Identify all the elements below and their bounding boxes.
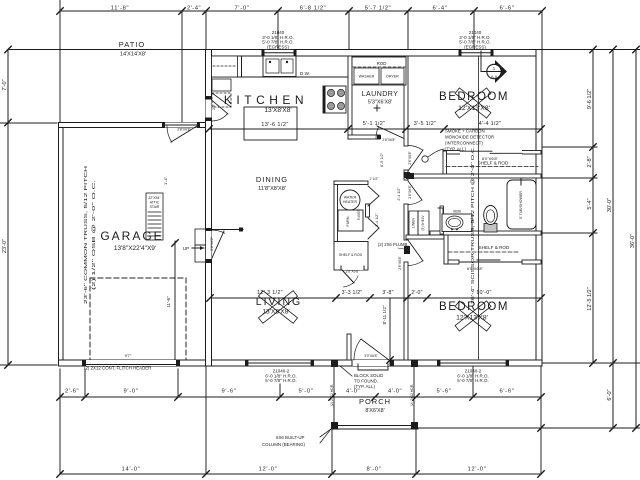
svg-text:2'-6": 2'-6" bbox=[65, 389, 79, 395]
svg-text:9'7": 9'7" bbox=[125, 353, 132, 358]
svg-text:FURN.: FURN. bbox=[346, 216, 350, 227]
svg-text:5'-4": 5'-4" bbox=[587, 198, 593, 209]
svg-text:6'-6": 6'-6" bbox=[499, 6, 514, 12]
garage slab dashed outline bbox=[90, 277, 186, 279]
svg-text:BLOCK SOLID: BLOCK SOLID bbox=[354, 373, 383, 378]
witness lines right bbox=[542, 49, 640, 51]
svg-text:DRYER: DRYER bbox=[386, 75, 399, 79]
svg-text:6'-8 1/2": 6'-8 1/2" bbox=[300, 6, 327, 12]
laundry door bbox=[377, 126, 404, 139]
svg-text:PATIO: PATIO bbox=[119, 40, 145, 49]
svg-text:8'-0": 8'-0" bbox=[366, 467, 381, 473]
svg-text:6'0"X6'8": 6'0"X6'8" bbox=[467, 266, 484, 271]
svg-text:11'-8": 11'-8" bbox=[111, 6, 130, 12]
dim line bottom row2 overall bbox=[60, 473, 541, 475]
bath door bbox=[408, 181, 422, 200]
garage door opening bbox=[86, 360, 176, 366]
svg-text:MONOXIDE DETECTOR: MONOXIDE DETECTOR bbox=[445, 135, 494, 140]
svg-text:8'X6'X8': 8'X6'X8' bbox=[365, 408, 384, 414]
laundry washer dryer cabinet bbox=[352, 57, 406, 85]
wall hall west segment3 bbox=[404, 204, 408, 240]
svg-text:6'-5 1/2": 6'-5 1/2" bbox=[380, 152, 384, 167]
svg-text:12'X13'X8': 12'X13'X8' bbox=[456, 315, 488, 322]
svg-text:COLUMN (BEARING): COLUMN (BEARING) bbox=[262, 442, 305, 447]
svg-text:13'X8'X8': 13'X8'X8' bbox=[264, 107, 291, 114]
svg-text:6'-4": 6'-4" bbox=[432, 6, 447, 12]
svg-text:2'4"X6'8": 2'4"X6'8" bbox=[408, 184, 412, 198]
svg-text:PORCH: PORCH bbox=[359, 397, 391, 406]
svg-text:KITCHEN: KITCHEN bbox=[224, 93, 308, 107]
svg-text:(EGRESS): (EGRESS) bbox=[267, 44, 289, 49]
witness lines top bbox=[59, 0, 61, 123]
svg-text:(2) 2X12 CONT. FLITCH HEADER: (2) 2X12 CONT. FLITCH HEADER bbox=[84, 366, 151, 371]
svg-text:13'8"X22'4"X9': 13'8"X22'4"X9' bbox=[114, 245, 156, 252]
svg-text:SHELF & ROD: SHELF & ROD bbox=[478, 161, 509, 166]
svg-text:STAIR: STAIR bbox=[150, 205, 160, 209]
kitchen stove bbox=[323, 86, 346, 113]
svg-text:6'-6": 6'-6" bbox=[499, 389, 514, 395]
dim line top bbox=[60, 10, 542, 12]
bathtub bbox=[507, 180, 536, 229]
garage interior dim line bbox=[174, 241, 176, 359]
svg-text:10'-0": 10'-0" bbox=[476, 290, 492, 296]
svg-text:1'-4": 1'-4" bbox=[163, 176, 168, 185]
wall hall west segment4 bedroom2 west bbox=[404, 262, 408, 360]
wall laundry south bbox=[348, 135, 380, 139]
svg-text:2'8"X6'8": 2'8"X6'8" bbox=[177, 128, 191, 132]
svg-text:23'-6" COMMON TRUSS, 5/12 PITC: 23'-6" COMMON TRUSS, 5/12 PITCH bbox=[83, 166, 88, 304]
interior dim line living-bed2 bbox=[210, 297, 541, 299]
svg-text:2'8": 2'8" bbox=[212, 103, 216, 109]
svg-text:12'-0": 12'-0" bbox=[259, 467, 278, 473]
svg-text:8'-11 1/2": 8'-11 1/2" bbox=[382, 305, 387, 324]
truss note right bbox=[478, 56, 480, 359]
front door stub wall bbox=[347, 334, 351, 360]
svg-text:BEDROOM: BEDROOM bbox=[439, 91, 509, 103]
svg-text:3'-5 1/2": 3'-5 1/2" bbox=[414, 121, 436, 127]
svg-text:5'3"X6'X8': 5'3"X6'X8' bbox=[368, 100, 392, 106]
svg-text:9'-6": 9'-6" bbox=[221, 389, 236, 395]
dim line right outer 36ft bbox=[635, 50, 637, 429]
smoke detector symbol bbox=[422, 156, 428, 162]
wall closet1 south / bath north bbox=[406, 174, 541, 178]
svg-text:WATER: WATER bbox=[344, 196, 357, 200]
wall garage bottom bbox=[59, 360, 206, 366]
front door opening bbox=[352, 360, 390, 366]
interior dim line kitchen-hall-bed1 bbox=[209, 128, 541, 130]
svg-text:2'6"X6'8": 2'6"X6'8" bbox=[408, 150, 412, 164]
utility bifold door upper bbox=[368, 186, 379, 196]
witness line patio top bbox=[8, 49, 206, 51]
ceiling fan bedroom2 bbox=[455, 301, 491, 331]
kitchen counter top run bbox=[213, 76, 348, 78]
svg-text:9696: 9696 bbox=[453, 210, 461, 214]
wall house left bbox=[206, 50, 212, 367]
svg-text:6'-0": 6'-0" bbox=[607, 389, 613, 400]
svg-text:SHELF & ROD: SHELF & ROD bbox=[479, 245, 510, 250]
svg-text:2'6"X6'8": 2'6"X6'8" bbox=[346, 270, 360, 274]
dim line right inner bbox=[592, 50, 594, 364]
witness line garage bottom left bbox=[0, 364, 57, 366]
kitchen fridge bbox=[212, 79, 231, 91]
garage step box bbox=[195, 229, 206, 262]
bath west wall stub bbox=[438, 207, 443, 209]
svg-text:2 1/2": 2 1/2" bbox=[369, 177, 379, 181]
wall bath west of vanity bbox=[440, 206, 444, 234]
svg-text:SHELF & ROD: SHELF & ROD bbox=[339, 253, 363, 257]
wall house top bbox=[206, 50, 543, 57]
witness lines bottom long bbox=[59, 369, 61, 474]
witness line garage top left bbox=[0, 122, 57, 124]
utility bifold door lower bbox=[368, 218, 379, 228]
svg-text:4'-4 1/2": 4'-4 1/2" bbox=[479, 121, 501, 127]
kitchen island bbox=[244, 107, 297, 140]
ceiling fan living bbox=[259, 291, 298, 324]
svg-text:14'X14'X8': 14'X14'X8' bbox=[120, 52, 146, 58]
dim line left bbox=[7, 50, 9, 366]
svg-text:13'-6 1/2": 13'-6 1/2" bbox=[261, 122, 289, 128]
kitchen cabinets left bbox=[212, 56, 238, 77]
svg-text:ATTIC: ATTIC bbox=[150, 201, 160, 205]
porch posts bbox=[331, 360, 338, 367]
svg-text:26'-4" SCISSOR TRUSS, 5/12 PIT: 26'-4" SCISSOR TRUSS, 5/12 PITCH @ 2'-0"… bbox=[470, 146, 475, 304]
svg-text:DINING: DINING bbox=[256, 175, 288, 184]
bath vanity bbox=[442, 214, 472, 232]
svg-text:6X6 BUILT-UP: 6X6 BUILT-UP bbox=[276, 435, 305, 440]
wall bath south bbox=[430, 231, 541, 235]
svg-text:2'-4 1/2": 2'-4 1/2" bbox=[397, 187, 401, 201]
svg-text:9'-0": 9'-0" bbox=[123, 389, 138, 395]
wall house bottom bbox=[206, 360, 543, 366]
porch leader bottom left bbox=[320, 429, 331, 443]
svg-text:3'-8": 3'-8" bbox=[382, 290, 393, 296]
svg-text:(2) 2X12 HDR.: (2) 2X12 HDR. bbox=[410, 384, 414, 406]
utility closet walls bbox=[334, 181, 338, 245]
garage service door opening bbox=[165, 123, 197, 128]
svg-text:2'-4 1/2": 2'-4 1/2" bbox=[375, 213, 379, 227]
back door opening in west wall bbox=[206, 99, 212, 118]
svg-text:(TYP, ALL): (TYP, ALL) bbox=[445, 147, 466, 152]
svg-text:23'-0": 23'-0" bbox=[2, 239, 8, 253]
wall garage top bbox=[59, 123, 206, 128]
wall house right bbox=[536, 50, 542, 367]
dim line bottom row1 bbox=[60, 396, 541, 398]
svg-text:(2) 2X12 HDR.: (2) 2X12 HDR. bbox=[330, 384, 334, 406]
svg-text:(EGRESS): (EGRESS) bbox=[464, 44, 486, 49]
garage attic stair bbox=[146, 193, 163, 240]
bedroom2 door bbox=[408, 240, 423, 261]
svg-text:22"X54": 22"X54" bbox=[148, 196, 161, 200]
garage entry door leaf bbox=[212, 231, 225, 259]
svg-text:LAUNDRY: LAUNDRY bbox=[362, 91, 399, 98]
section marker bbox=[495, 60, 507, 83]
linen closet bbox=[409, 211, 429, 235]
svg-text:(2) 1/2" OSB @ 2'-0" O.C.: (2) 1/2" OSB @ 2'-0" O.C. bbox=[91, 180, 96, 290]
svg-text:UP: UP bbox=[183, 246, 189, 251]
wall linen south / bedroom2 north west part bbox=[406, 235, 444, 239]
garage entry door opening in west wall bbox=[206, 231, 212, 259]
svg-text:GARAGE: GARAGE bbox=[100, 229, 163, 243]
front door leaf bbox=[361, 339, 389, 360]
wall laundry west bbox=[348, 56, 352, 139]
wall hall west segment2 bbox=[404, 170, 408, 180]
kitchen sink bbox=[263, 56, 296, 77]
toilet bbox=[484, 224, 497, 233]
plumb wall black bbox=[404, 246, 410, 254]
svg-text:5'-0 7/8" H.R.O.: 5'-0 7/8" H.R.O. bbox=[265, 378, 296, 383]
svg-text:4'-0": 4'-0" bbox=[388, 389, 402, 395]
svg-text:5'4X6'8: 5'4X6'8 bbox=[357, 210, 361, 221]
garage service door leaf bbox=[171, 126, 197, 142]
svg-text:(TYP. ALL): (TYP. ALL) bbox=[354, 384, 375, 389]
svg-text:D.W.: D.W. bbox=[300, 71, 310, 76]
window bedroom1 top bbox=[461, 50, 491, 57]
back door leaf bbox=[212, 100, 229, 114]
living vertical dim bbox=[389, 298, 391, 360]
svg-text:5'-0": 5'-0" bbox=[298, 389, 313, 395]
dim line right middle 30ft bbox=[612, 50, 614, 429]
water heater bbox=[340, 190, 360, 210]
window kitchen top bbox=[264, 50, 294, 57]
porch outline bbox=[333, 367, 335, 422]
svg-text:7'-0": 7'-0" bbox=[2, 79, 8, 90]
bedroom1 door bbox=[408, 150, 423, 171]
svg-text:30'-0": 30'-0" bbox=[607, 198, 613, 212]
svg-text:(INTERCONNECT): (INTERCONNECT) bbox=[445, 141, 483, 146]
wall stub living north bbox=[210, 229, 243, 231]
svg-text:4'-0": 4'-0" bbox=[346, 389, 360, 395]
svg-text:ROD: ROD bbox=[377, 61, 387, 66]
svg-text:2'8"X6'8": 2'8"X6'8" bbox=[210, 236, 214, 250]
entry closet door bbox=[342, 270, 354, 283]
svg-text:TO FOUND.: TO FOUND. bbox=[354, 379, 378, 384]
svg-text:12'-0": 12'-0" bbox=[468, 467, 487, 473]
svg-text:(5) SHELV: (5) SHELV bbox=[421, 215, 425, 231]
svg-text:(2) 2X6 PLUMB.: (2) 2X6 PLUMB. bbox=[378, 242, 409, 247]
window living bottom bbox=[248, 360, 311, 366]
wall closet1 north (bedroom1 south) bbox=[443, 151, 541, 155]
wall closet2 west stub bbox=[444, 235, 448, 264]
ceiling fan bedroom1 bbox=[455, 88, 491, 118]
svg-text:14'-0": 14'-0" bbox=[122, 467, 141, 473]
svg-text:2'-8": 2'-8" bbox=[587, 156, 593, 167]
furnace bbox=[338, 210, 363, 231]
svg-text:5'-1 1/2": 5'-1 1/2" bbox=[363, 121, 385, 127]
svg-text:LINEN: LINEN bbox=[412, 217, 416, 228]
window bedroom2 bottom bbox=[440, 360, 506, 366]
porch step lines bbox=[357, 364, 359, 370]
svg-text:HEATER: HEATER bbox=[343, 200, 358, 204]
entry closet bbox=[334, 242, 368, 271]
svg-text:A-5: A-5 bbox=[491, 74, 498, 79]
svg-text:9'-6 1/2": 9'-6 1/2" bbox=[587, 89, 593, 109]
svg-text:2'8"X6'8": 2'8"X6'8" bbox=[382, 138, 396, 142]
svg-text:36'-0": 36'-0" bbox=[630, 234, 636, 248]
wall closet1 west bbox=[443, 151, 447, 175]
svg-text:5'-7 1/2": 5'-7 1/2" bbox=[365, 6, 392, 12]
svg-text:WASHER: WASHER bbox=[359, 75, 375, 79]
svg-text:2'-0": 2'-0" bbox=[411, 290, 422, 296]
svg-text:5'-6": 5'-6" bbox=[436, 389, 451, 395]
svg-text:3'0"X6'8": 3'0"X6'8" bbox=[364, 354, 378, 358]
wall closet2 south bbox=[444, 260, 459, 264]
svg-text:11'-6": 11'-6" bbox=[166, 296, 171, 308]
svg-text:2'6"X6'8": 2'6"X6'8" bbox=[398, 255, 402, 269]
svg-text:11'8"X8'X8': 11'8"X8'X8' bbox=[258, 186, 286, 192]
witness stubs row1 bbox=[84, 369, 86, 397]
svg-text:5'-0 7/8" H.R.O.: 5'-0 7/8" H.R.O. bbox=[457, 378, 488, 383]
wall laundry east / hall west upper bbox=[404, 56, 408, 146]
svg-text:12'-5 1/2": 12'-5 1/2" bbox=[587, 287, 593, 311]
svg-text:7'-0": 7'-0" bbox=[234, 6, 249, 12]
svg-text:3'-3 1/2": 3'-3 1/2" bbox=[342, 290, 363, 296]
svg-text:2'-4": 2'-4" bbox=[187, 6, 201, 12]
laundry floor drain bbox=[374, 107, 380, 109]
svg-text:SMOKE + CARBON: SMOKE + CARBON bbox=[445, 129, 485, 134]
wall garage left bbox=[59, 123, 64, 367]
svg-text:5' TUB/SHOWER: 5' TUB/SHOWER bbox=[519, 191, 523, 219]
